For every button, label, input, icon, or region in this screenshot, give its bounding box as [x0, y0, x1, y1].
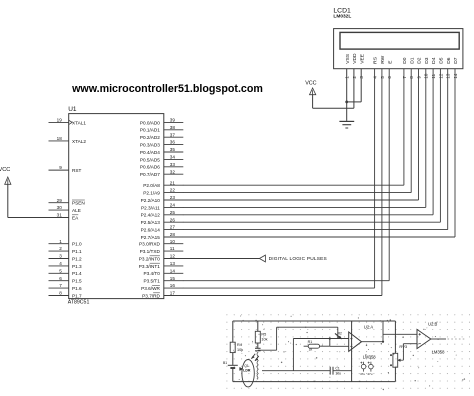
LCD1 pin 9 D2 — [416, 57, 422, 78]
svg-text:6: 6 — [59, 276, 62, 281]
wire P2.3 to LCD D3 — [183, 69, 426, 208]
LCD1 pin 5 RW — [380, 55, 386, 78]
U1 pin 14 P3.4/T0 — [143, 268, 183, 276]
svg-text:P2.4/A12: P2.4/A12 — [141, 213, 161, 218]
wire wiper to U2:B inverting input — [403, 344, 417, 361]
U1 pin 16 P3.6/WR — [141, 283, 183, 291]
junction pot bottom — [390, 364, 392, 366]
U1 pin 19 XTAL1 — [49, 118, 87, 126]
wire right rail upper — [394, 321, 396, 353]
svg-text:RST: RST — [72, 168, 82, 173]
LDR1 labels — [243, 364, 251, 372]
svg-text:2: 2 — [59, 246, 62, 251]
svg-text:P2.0/A8: P2.0/A8 — [143, 183, 160, 188]
LCD1 pin 2 VDD — [352, 53, 358, 79]
svg-text:P0.6/AD6: P0.6/AD6 — [140, 165, 160, 170]
svg-text:LM358: LM358 — [432, 350, 445, 355]
LCD1 pin 8 D1 — [409, 57, 415, 78]
gain arrow D-mark — [335, 332, 342, 339]
svg-text:D5: D5 — [439, 57, 445, 64]
wire mid vertical branch — [257, 321, 259, 348]
svg-text:P3.6/WR: P3.6/WR — [141, 286, 160, 291]
svg-text:P1.0: P1.0 — [72, 242, 82, 247]
svg-text:19: 19 — [57, 118, 63, 123]
U1 pin 4 P1.3 — [49, 261, 83, 269]
wire VSS to ground — [346, 69, 348, 121]
svg-text:P3.7/RD: P3.7/RD — [142, 293, 160, 298]
U1 pin 32 P0.7/AD7 — [140, 169, 183, 177]
wire P2.2 to LCD D2 — [183, 69, 419, 200]
logic state arrow marker — [259, 255, 265, 262]
svg-text:P0.7/AD7: P0.7/AD7 — [140, 172, 160, 177]
svg-text:P1.2: P1.2 — [72, 256, 82, 261]
wire VEE to VSS net — [347, 69, 362, 102]
svg-text:R4: R4 — [237, 343, 242, 347]
svg-text:P3.2/INT0: P3.2/INT0 — [139, 256, 160, 261]
LCD1 pin 12 D5 — [438, 57, 444, 78]
wire right rail lower — [394, 367, 396, 381]
svg-text:EA: EA — [72, 215, 79, 220]
svg-text:P1.6: P1.6 — [72, 286, 82, 291]
svg-text:15: 15 — [170, 276, 176, 281]
svg-text:P1.1: P1.1 — [72, 249, 82, 254]
svg-text:P0.5/AD5: P0.5/AD5 — [140, 157, 160, 162]
U1 pin 2 P1.1 — [49, 246, 83, 254]
svg-text:P2.7/A15: P2.7/A15 — [141, 235, 161, 240]
U1 pin 21 P2.0/A8 — [143, 180, 183, 188]
U1 pin 11 P3.1/TXD — [140, 246, 184, 254]
svg-text:VCC: VCC — [305, 80, 316, 86]
wire P2.5 to LCD D5 — [183, 69, 441, 223]
svg-text:P1.5: P1.5 — [72, 279, 82, 284]
wire analog left branch — [232, 321, 234, 382]
svg-text:PSEN: PSEN — [72, 201, 85, 206]
svg-text:Q1: Q1 — [244, 364, 249, 368]
svg-text:R5: R5 — [261, 332, 266, 336]
U1 pin 5 P1.4 — [49, 268, 83, 276]
svg-text:P2.2/A10: P2.2/A10 — [141, 198, 161, 203]
U1 pin 34 P0.5/AD5 — [140, 155, 183, 163]
battery B1 — [223, 361, 238, 368]
svg-text:RW: RW — [380, 55, 386, 63]
svg-text:5: 5 — [59, 268, 62, 273]
svg-text:VSS: VSS — [345, 53, 351, 64]
wire P2.0 to LCD D0 — [183, 69, 404, 186]
U1 pin 30 ALE — [49, 205, 81, 213]
svg-text:P3.3/INT1: P3.3/INT1 — [139, 264, 160, 269]
svg-text:P2.1/A9: P2.1/A9 — [143, 191, 160, 196]
svg-text:24: 24 — [170, 203, 176, 208]
LCD1 pin 7 D0 — [402, 57, 408, 78]
svg-text:36: 36 — [170, 140, 176, 145]
wire P3.7 to LCD RW — [183, 69, 382, 296]
U1 pin 7 P1.6 — [49, 283, 83, 291]
U1 pin 12 P3.2/INT0 — [139, 254, 184, 262]
power symbol VCC (left) — [0, 167, 11, 184]
svg-text:P3.1/TXD: P3.1/TXD — [140, 249, 161, 254]
svg-text:7: 7 — [59, 283, 62, 288]
U1 pin 35 P0.4/AD4 — [140, 147, 183, 155]
svg-text:U2:A: U2:A — [364, 324, 374, 329]
U1 pin 26 P2.5/A13 — [141, 217, 184, 225]
svg-text:P1.3: P1.3 — [72, 264, 82, 269]
svg-text:D6: D6 — [446, 57, 452, 64]
svg-text:9: 9 — [59, 165, 62, 170]
svg-text:RS: RS — [373, 56, 379, 64]
svg-text:R2: R2 — [338, 332, 342, 336]
svg-text:10k: 10k — [237, 348, 243, 352]
svg-text:16: 16 — [170, 283, 176, 288]
svg-text:VCC: VCC — [0, 167, 10, 173]
LCD1 pin 14 D7 — [453, 57, 459, 78]
potentiometer RV3 — [393, 344, 408, 367]
microcontroller U1 body — [69, 114, 164, 299]
junction VEE-VSS — [345, 101, 348, 104]
svg-text:C1: C1 — [335, 366, 339, 370]
U1 pin 31 EA — [49, 213, 80, 221]
svg-text:ALE: ALE — [72, 208, 81, 213]
U1 pin 29 PSEN — [49, 198, 85, 206]
svg-text:P1.4: P1.4 — [72, 271, 82, 276]
LCD1 pin 10 D3 — [424, 57, 430, 78]
U1 pin 25 P2.4/A12 — [141, 210, 184, 218]
op-amp U2:A — [349, 332, 362, 351]
svg-text:AT89C51: AT89C51 — [68, 299, 90, 305]
wire P2.1 to LCD D1 — [183, 69, 411, 193]
svg-text:U1: U1 — [68, 106, 77, 113]
U1 XTAL1 clock marker — [69, 120, 72, 124]
svg-text:P3.4/T0: P3.4/T0 — [143, 271, 160, 276]
svg-text:P0.4/AD4: P0.4/AD4 — [140, 150, 160, 155]
svg-text:P3.0/RXD: P3.0/RXD — [139, 242, 160, 247]
capacitor C3 — [367, 362, 373, 376]
svg-text:17: 17 — [170, 291, 176, 296]
svg-text:35: 35 — [170, 147, 176, 152]
svg-text:D3: D3 — [424, 57, 430, 64]
U1 pin 24 P2.3/A11 — [141, 203, 183, 211]
U1 pin 23 P2.2/A10 — [141, 195, 184, 203]
svg-text:10k: 10k — [261, 337, 267, 341]
capacitor C1 — [330, 366, 341, 375]
wire R1 to inverting input — [330, 339, 349, 347]
wire stage box left — [351, 321, 353, 382]
LCD1 pin 13 D6 — [446, 57, 452, 78]
capacitor C2 — [360, 362, 366, 376]
svg-text:P3.5/T1: P3.5/T1 — [143, 279, 160, 284]
svg-text:D4: D4 — [431, 57, 437, 64]
U1 pin 38 P0.1/AD1 — [140, 125, 183, 133]
resistor R4 — [230, 342, 243, 352]
svg-text:39: 39 — [170, 118, 176, 123]
svg-text:25: 25 — [170, 210, 176, 215]
svg-text:47u: 47u — [360, 372, 365, 376]
U1 pin 33 P0.6/AD6 — [140, 162, 183, 170]
U1 pin 15 P3.5/T1 — [143, 276, 183, 284]
svg-text:38: 38 — [170, 125, 176, 130]
svg-text:R1: R1 — [308, 340, 313, 344]
svg-text:P2.5/A13: P2.5/A13 — [141, 220, 161, 225]
light arrows into LDR — [251, 354, 258, 361]
svg-text:23: 23 — [170, 195, 176, 200]
svg-text:26: 26 — [170, 217, 176, 222]
U1 pin 10 P3.0/RXD — [139, 239, 183, 247]
LCD1 pin 1 VSS — [345, 53, 351, 78]
svg-text:P2.6/A14: P2.6/A14 — [141, 228, 161, 233]
svg-text:P0.3/AD3: P0.3/AD3 — [140, 143, 160, 148]
op-amp U2:B — [417, 329, 431, 348]
wire VDD to VCC — [313, 69, 354, 109]
U1 pin 13 P3.3/INT1 — [139, 261, 184, 269]
svg-text:LCD1: LCD1 — [333, 7, 351, 14]
svg-text:P1.7: P1.7 — [72, 293, 82, 298]
svg-text:1: 1 — [59, 239, 62, 244]
svg-text:47u: 47u — [367, 372, 372, 376]
junction R1 node — [329, 337, 331, 339]
LCD screen area — [340, 32, 459, 49]
svg-text:11: 11 — [170, 246, 175, 251]
wire P2.4 to LCD D4 — [183, 69, 433, 215]
svg-text:27: 27 — [170, 225, 176, 230]
wire C1 node — [262, 339, 352, 371]
svg-text:34: 34 — [170, 155, 176, 160]
svg-text:14: 14 — [170, 268, 176, 273]
power symbol VCC (at LCD) — [305, 80, 316, 94]
svg-text:32: 32 — [170, 169, 176, 174]
wire P2.6 to LCD D6 — [183, 69, 448, 230]
svg-text:1k: 1k — [309, 348, 313, 352]
U1 pin 17 P3.7/RD — [142, 291, 183, 299]
wire analog top rail — [233, 320, 396, 322]
wire analog bottom rail — [233, 381, 396, 383]
svg-text:VDD: VDD — [352, 53, 358, 64]
svg-text:10u: 10u — [335, 371, 341, 375]
wire VCC to U1 EA pin — [8, 184, 49, 217]
wire P3.2 to logic input — [183, 258, 260, 260]
U1 pin 22 P2.1/A9 — [143, 188, 183, 196]
LCD1 pin 6 E — [387, 60, 393, 79]
U1 pin 1 P1.0 — [49, 239, 83, 247]
sensor LDR1 envelope — [242, 360, 254, 387]
U1 pin 9 RST — [49, 165, 82, 173]
LCD display LCD1 body — [334, 29, 463, 69]
LED emitter mark — [240, 367, 243, 370]
svg-text:LDR: LDR — [243, 369, 251, 373]
svg-text:D7: D7 — [453, 57, 459, 64]
svg-text:LM358: LM358 — [363, 355, 376, 360]
svg-text:U2:B: U2:B — [428, 322, 438, 327]
svg-text:33: 33 — [170, 162, 176, 167]
U1 pin 8 P1.7 — [49, 291, 83, 299]
U1 pin 28 P2.7/A15 — [141, 232, 184, 240]
U1 pin 37 P0.2/AD2 — [140, 132, 183, 140]
LDR sensor zigzag — [257, 352, 258, 378]
U1 pin 6 P1.5 — [49, 276, 83, 284]
svg-text:DIGITAL LOGIC PULSES: DIGITAL LOGIC PULSES — [269, 256, 327, 262]
wire coupling path — [258, 327, 338, 350]
svg-text:D0: D0 — [402, 57, 408, 64]
svg-text:VEE: VEE — [359, 53, 365, 64]
resistor R5 — [255, 331, 267, 343]
svg-text:22: 22 — [170, 188, 176, 193]
svg-text:21: 21 — [170, 180, 176, 185]
wire P3.5 to LCD E — [183, 69, 389, 281]
svg-text:30: 30 — [57, 205, 63, 210]
svg-text:LM032L: LM032L — [333, 13, 351, 19]
wire P2.7 to LCD D7 — [183, 69, 455, 237]
svg-text:D1: D1 — [409, 57, 415, 64]
svg-text:28: 28 — [170, 232, 176, 237]
U1 pin 39 P0.0/AD0 — [140, 118, 183, 126]
capacitor C4 — [255, 348, 261, 351]
wire U2:B output — [431, 338, 466, 340]
U1 pin 18 XTAL2 — [49, 136, 87, 144]
LCD1 pin 3 VEE — [359, 53, 365, 78]
LCD1 pin 11 D4 — [431, 57, 437, 78]
svg-text:4: 4 — [59, 261, 62, 266]
svg-text:37: 37 — [170, 132, 176, 137]
U1 pin 36 P0.3/AD3 — [140, 140, 183, 148]
ground symbol — [339, 121, 354, 128]
svg-text:www.microcontroller51.blogspot: www.microcontroller51.blogspot.com — [71, 83, 263, 95]
U1 pin 27 P2.6/A14 — [141, 225, 184, 233]
svg-text:P0.2/AD2: P0.2/AD2 — [140, 135, 160, 140]
svg-text:29: 29 — [57, 198, 63, 203]
resistor R1 — [304, 340, 330, 351]
LCD1 pin 4 RS — [373, 56, 379, 78]
svg-text:B1: B1 — [223, 361, 227, 365]
svg-text:P2.3/A11: P2.3/A11 — [141, 205, 160, 210]
junction pot top — [390, 354, 392, 356]
svg-text:D2: D2 — [417, 57, 423, 64]
svg-text:12: 12 — [170, 254, 176, 259]
svg-text:13: 13 — [170, 261, 176, 266]
svg-text:P0.1/AD1: P0.1/AD1 — [140, 128, 160, 133]
svg-text:8: 8 — [59, 291, 62, 296]
U1 pin 3 P1.2 — [49, 254, 83, 262]
wire U2:A output — [362, 321, 418, 342]
svg-text:31: 31 — [57, 213, 63, 218]
wire P3.6 to LCD RS — [183, 69, 375, 288]
svg-text:3: 3 — [59, 254, 62, 259]
svg-text:XTAL2: XTAL2 — [72, 139, 86, 144]
svg-text:18: 18 — [57, 136, 63, 141]
svg-text:XTAL1: XTAL1 — [72, 120, 86, 125]
svg-text:P0.0/AD0: P0.0/AD0 — [140, 120, 160, 125]
junction output node — [382, 341, 384, 343]
svg-text:10: 10 — [170, 239, 176, 244]
